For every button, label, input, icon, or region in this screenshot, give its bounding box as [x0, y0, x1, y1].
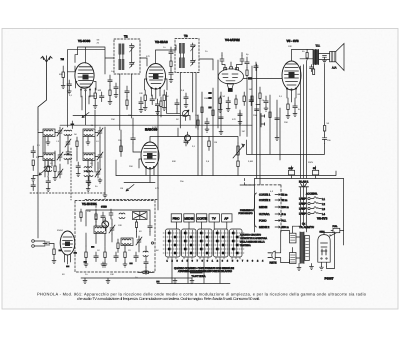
capacitor C33	[310, 65, 314, 72]
coil L4	[83, 153, 95, 161]
wire V2 plate to T2	[156, 45, 177, 63]
capacitor C15	[131, 134, 136, 143]
ground	[297, 264, 301, 271]
svg-text:T2: T2	[124, 35, 128, 39]
capacitor C68 dark	[156, 281, 159, 283]
ground	[53, 176, 57, 181]
ground	[87, 173, 91, 186]
resistor R46	[117, 239, 119, 253]
capacitor C41	[31, 182, 35, 191]
capacitor C55	[125, 86, 129, 97]
svg-text:V1-ECH81: V1-ECH81	[82, 202, 97, 206]
ground	[264, 107, 268, 112]
lamp row L3	[299, 207, 325, 211]
wire V5 plate to T5	[292, 49, 314, 61]
coil L2	[83, 129, 95, 137]
coil L10	[64, 154, 72, 159]
wire transformer top	[293, 187, 307, 258]
volume pot P1	[233, 143, 245, 158]
capacitor C54	[114, 83, 118, 93]
resistor R52	[126, 97, 128, 110]
FM unit box	[133, 212, 148, 220]
connector J1	[261, 114, 265, 128]
speaker AP	[319, 44, 344, 71]
label matrix legend	[174, 267, 234, 278]
capacitor C7	[322, 135, 327, 144]
capacitor C37	[264, 96, 268, 107]
oscillator dashed box	[75, 201, 155, 273]
potentiometer P2	[183, 110, 190, 121]
resistor R35	[269, 112, 271, 118]
svg-text:RETE: RETE	[270, 262, 277, 265]
capacitor C46	[148, 222, 152, 232]
svg-text:LAMP: LAMP	[299, 203, 306, 206]
trimmer C9	[97, 127, 103, 137]
osc coil L7	[94, 226, 106, 234]
capacitor C5	[249, 96, 254, 106]
wire heater bus A	[73, 116, 190, 121]
capacitor C43	[76, 162, 80, 172]
wire af bus 2	[116, 160, 155, 183]
capacitor C13	[46, 177, 51, 187]
capacitor C51	[169, 47, 173, 58]
svg-text:PREMENDO: PREMENDO	[240, 209, 253, 212]
svg-text:FONO: FONO	[259, 220, 267, 223]
switch matrix	[166, 229, 243, 257]
wire osc dashed gang	[95, 206, 97, 226]
legend text block	[240, 209, 268, 247]
capacitor C30	[220, 56, 224, 65]
long vertical drops top to bottom	[95, 60, 280, 210]
wire B+ verticals to power unit	[301, 61, 307, 179]
capacitor C58	[245, 57, 249, 68]
coil L3	[43, 153, 55, 161]
svg-text:V1-6C86: V1-6C86	[78, 39, 90, 43]
capacitor C62	[175, 99, 179, 109]
mains plug	[268, 251, 277, 265]
ground	[184, 103, 188, 108]
svg-text:50K: 50K	[172, 160, 176, 163]
ground	[86, 187, 90, 192]
svg-text:AF: AF	[224, 217, 228, 221]
trimmer C12	[57, 168, 63, 178]
value labels scatter	[36, 39, 331, 280]
ground	[173, 278, 177, 284]
wire top bus to T1	[68, 47, 115, 74]
IF transformer T1 dashed box	[114, 39, 140, 74]
dashed AVC bus	[85, 199, 158, 201]
svg-text:FONOGRAFO: FONOGRAFO	[239, 212, 253, 215]
switch matrix contacts	[168, 232, 239, 255]
capacitor C36	[275, 118, 279, 120]
ground	[205, 128, 209, 133]
ground	[46, 187, 50, 192]
resistor R13	[85, 246, 87, 263]
coil L5	[84, 171, 93, 177]
resistor R1	[62, 66, 64, 83]
svg-text:250K: 250K	[204, 97, 210, 100]
ground	[103, 193, 107, 198]
wire long AF bus	[116, 171, 336, 176]
trimmer C44	[95, 168, 101, 178]
resistor R53	[246, 68, 248, 137]
coil L9	[64, 130, 72, 135]
output transformer T5	[313, 49, 319, 64]
ground	[238, 120, 242, 125]
potentiometer P3	[185, 132, 191, 144]
resistor R17	[138, 271, 154, 273]
resistor R11	[237, 158, 239, 176]
capacitor C1	[67, 80, 72, 90]
capacitor C57	[155, 99, 159, 110]
capacitor C66 dark	[248, 77, 252, 79]
resistor R44	[95, 210, 97, 221]
resistor R5	[219, 96, 221, 108]
wire T2 to V4	[199, 59, 213, 70]
wire screen bus	[247, 64, 325, 154]
svg-text:EM34: EM34	[57, 229, 63, 232]
resistor R55	[235, 95, 237, 109]
capacitor C21	[114, 252, 119, 262]
wire vertical drop x221	[220, 92, 222, 130]
legend row CORTE2	[259, 199, 287, 202]
ground	[108, 100, 112, 105]
band table header AF	[222, 214, 232, 222]
wire V3 grid left	[133, 143, 141, 152]
svg-text:FINO: FINO	[173, 217, 181, 221]
wire dashed gang line	[70, 148, 72, 200]
resistor R9	[47, 162, 49, 176]
svg-text:3 m: 3 m	[282, 213, 286, 216]
tube V5	[282, 61, 301, 102]
resistor R14	[104, 247, 106, 263]
wire heater bus B	[60, 124, 252, 126]
capacitor C3	[150, 95, 155, 105]
label matrix numbers	[167, 260, 265, 263]
svg-text:T3: T3	[184, 34, 188, 38]
lamp row L2	[299, 202, 325, 206]
ground	[101, 262, 105, 267]
wire plug to transformer	[275, 231, 289, 263]
power section box	[255, 178, 344, 245]
wire V4 to V5 coupling	[244, 78, 283, 80]
resistor R51	[109, 86, 111, 100]
svg-text:T.U.: T.U.	[316, 45, 321, 48]
svg-text:10K: 10K	[110, 273, 114, 276]
wire pot to bus	[186, 137, 238, 144]
svg-text:25K: 25K	[111, 118, 115, 121]
ground	[83, 278, 87, 284]
resistor R30	[306, 49, 308, 60]
resistor R32	[201, 107, 203, 113]
ground	[218, 108, 222, 113]
wire coil cluster vertical links	[45, 135, 98, 177]
rectifier tube V6	[318, 235, 330, 267]
capacitor C60 dark	[59, 246, 95, 267]
wire T1 bottom drop	[120, 74, 132, 130]
coil L11	[143, 251, 148, 256]
svg-text:1M: 1M	[242, 130, 245, 133]
ground	[190, 278, 194, 284]
wire T2 drops	[180, 73, 196, 128]
wire vertical drop x257	[256, 64, 258, 178]
tube V4	[218, 67, 243, 92]
trimmer C10	[57, 151, 63, 161]
wire osc extra	[112, 210, 150, 270]
capacitor C63	[184, 93, 188, 103]
svg-text:1M: 1M	[249, 88, 252, 91]
wire vertical drop x270	[269, 95, 271, 154]
ground	[114, 93, 118, 98]
dashed AVC bus 2	[245, 178, 282, 232]
svg-text:CORTE 1: CORTE 1	[259, 194, 271, 197]
svg-text:A TASTIERA COMMUTATA NELLE POS: A TASTIERA COMMUTATA NELLE POSIZIONI DI …	[178, 270, 232, 273]
svg-text:ACCENS.: ACCENS.	[306, 193, 318, 196]
resistor R12	[208, 137, 210, 151]
legend row MEDIE	[259, 206, 289, 209]
wire antenna down-lead	[37, 130, 39, 238]
svg-text:ULTRAC.: ULTRAC.	[259, 213, 270, 216]
ground	[275, 136, 279, 141]
svg-text:1M: 1M	[214, 141, 217, 144]
capacitor C20	[94, 252, 99, 262]
trimmer C18	[109, 224, 115, 234]
osc coil L8	[121, 238, 133, 246]
trimmer C11	[97, 151, 103, 161]
wire v2 bottom net	[161, 92, 180, 117]
wire vertical drop x252	[251, 66, 253, 154]
resistor R6	[243, 92, 245, 106]
tube V1	[75, 63, 96, 99]
capacitor C32	[323, 56, 327, 63]
potentiometer P4	[102, 218, 109, 231]
svg-text:47K: 47K	[155, 187, 159, 190]
ground	[31, 176, 35, 182]
ground	[286, 114, 290, 119]
svg-text:V6-5Y3: V6-5Y3	[317, 217, 328, 221]
resistor R42	[54, 162, 56, 176]
svg-text:LAMP: LAMP	[299, 198, 306, 201]
phono input terminals	[32, 240, 45, 248]
wire V3 plate	[150, 137, 186, 143]
svg-text:P.U.: P.U.	[282, 220, 287, 223]
legend brace	[253, 193, 257, 227]
wire vertical drop x202	[201, 92, 203, 176]
svg-text:0,5M: 0,5M	[248, 160, 253, 163]
resistor R54	[160, 97, 162, 111]
trimmer C42	[65, 138, 71, 148]
ground	[52, 259, 56, 264]
capacitor C16	[184, 137, 189, 147]
svg-text:BLAN 1: BLAN 1	[299, 181, 309, 184]
capacitor C2	[100, 92, 105, 102]
svg-text:32 m: 32 m	[282, 199, 288, 202]
ballast BLAN	[289, 170, 319, 187]
svg-text:47K: 47K	[232, 118, 236, 121]
wire V4 top	[222, 53, 242, 70]
capacitor C40	[31, 146, 35, 158]
wire T1 to V2	[140, 58, 147, 66]
capacitor C53	[108, 75, 112, 86]
wire bottom bus 2	[157, 259, 230, 284]
svg-text:1M: 1M	[120, 187, 123, 190]
ground	[98, 178, 102, 183]
svg-text:A.P.: A.P.	[332, 67, 337, 70]
legend row ULTRAC	[259, 213, 286, 216]
resistor R37	[197, 115, 199, 130]
svg-text:V5 - 6V6: V5 - 6V6	[287, 39, 299, 43]
capacitor C38	[205, 118, 209, 128]
ground	[76, 172, 80, 177]
wire V6 output	[324, 231, 344, 269]
resistor R40	[32, 160, 34, 171]
svg-text:MEDIE: MEDIE	[259, 206, 267, 209]
legend row CORTE	[259, 194, 287, 197]
tube V6 magic eye	[60, 231, 75, 264]
capacitor C59	[254, 62, 258, 71]
resistor R41	[76, 137, 78, 151]
svg-text:7M: 7M	[61, 58, 64, 61]
resistor R43	[135, 220, 137, 232]
resistor R10	[120, 140, 122, 157]
wire grid riser x67.5	[67, 50, 69, 127]
legend row MEDIE2	[259, 226, 289, 229]
resistor R50	[170, 58, 172, 71]
svg-text:LAMP: LAMP	[299, 208, 306, 211]
svg-text:LAMP: LAMP	[299, 213, 306, 216]
resistor R16	[53, 244, 55, 259]
ground	[144, 270, 148, 274]
capacitor C65 dark	[71, 121, 75, 129]
ground	[46, 140, 50, 145]
power transformer T6	[290, 232, 310, 264]
svg-text:DELLA SEZIONE DELLA: DELLA SEZIONE DELLA	[240, 241, 265, 244]
ground	[123, 262, 127, 267]
wire osc internal	[86, 210, 139, 252]
trimmer C8	[57, 127, 63, 137]
fuse box	[330, 228, 344, 236]
ground	[66, 150, 70, 155]
svg-text:V4-6AT6M: V4-6AT6M	[225, 38, 240, 42]
wire misc right	[240, 166, 316, 185]
IF transformer T2 dashed box	[175, 39, 199, 73]
capacitor C45	[144, 257, 148, 268]
antenna	[38, 56, 52, 130]
ground	[139, 108, 143, 113]
svg-text:MEDIE 2: MEDIE 2	[259, 226, 270, 229]
wire grid riser x77.5	[68, 47, 78, 72]
capacitor C23	[43, 242, 54, 246]
resistor R36	[256, 87, 261, 105]
wire vertical drop x213	[212, 88, 214, 176]
tube V3	[139, 142, 159, 178]
capacitor C6	[293, 104, 298, 112]
resistor R45	[80, 209, 82, 222]
band table header FINO	[171, 214, 181, 222]
resistor R34	[251, 96, 253, 102]
resistor R7	[287, 104, 289, 114]
wire V1 cathode	[82, 96, 95, 125]
ground	[106, 278, 110, 284]
resistor R2	[94, 88, 96, 104]
ground	[67, 89, 71, 94]
capacitor C56	[139, 97, 143, 108]
svg-text:200 m: 200 m	[282, 206, 289, 209]
ground	[156, 110, 160, 115]
svg-text:CORTE: CORTE	[197, 217, 207, 221]
svg-text:50K: 50K	[59, 73, 63, 76]
svg-text:6,3V: 6,3V	[289, 167, 294, 170]
coil L12	[44, 167, 52, 172]
coil L6	[119, 213, 125, 219]
ground	[162, 106, 166, 111]
resistor R31	[313, 65, 315, 75]
svg-text:20K: 20K	[87, 210, 91, 213]
svg-text:CORTE 2: CORTE 2	[259, 199, 271, 202]
band table header MEDIE	[184, 214, 194, 222]
ground	[103, 262, 107, 267]
ground	[320, 266, 324, 270]
wire cluster verticals	[43, 127, 105, 193]
ground	[93, 104, 97, 109]
svg-text:TV: TV	[212, 217, 216, 221]
svg-text:350V: 350V	[308, 161, 314, 164]
capacitor C47	[101, 212, 105, 222]
capacitor C34	[219, 117, 223, 119]
resistor R15	[124, 248, 126, 263]
bottom ground bus	[81, 277, 192, 279]
tube V2	[145, 64, 168, 99]
ground	[61, 83, 65, 89]
ground	[86, 140, 90, 145]
svg-text:TASTIERA: TASTIERA	[192, 275, 206, 278]
svg-text:che audio-TV a modulazione di: che audio-TV a modulazione di frequenza.…	[77, 296, 260, 301]
ground	[169, 78, 173, 83]
svg-text:MEDIE: MEDIE	[184, 217, 193, 221]
ground	[219, 130, 223, 135]
legend row FONO	[259, 220, 286, 223]
capacitor C61 dark	[208, 92, 211, 109]
wire dashed gang line 2	[30, 192, 105, 194]
ground	[143, 106, 147, 111]
svg-text:P6387: P6387	[325, 277, 334, 281]
lamp row L1	[299, 197, 325, 201]
switch arrow S3	[82, 113, 89, 118]
capacitor C4	[226, 97, 231, 107]
svg-text:2M: 2M	[128, 114, 131, 117]
wire coil cluster links	[38, 133, 100, 178]
wire header drops	[176, 222, 226, 229]
coil L13	[84, 167, 92, 172]
svg-text:FUS.: FUS.	[333, 225, 338, 228]
capacitor C52	[169, 71, 173, 79]
resistor R33	[212, 110, 214, 116]
switch matrix pins	[168, 257, 240, 259]
trimmer C19	[136, 236, 142, 246]
ground	[226, 107, 230, 112]
svg-text:I CONTATTI DI APERTURA: I CONTATTI DI APERTURA	[240, 237, 268, 240]
svg-text:35Z4: 35Z4	[320, 231, 326, 234]
svg-text:EABC: EABC	[152, 126, 158, 129]
band table header CORTE	[196, 214, 207, 222]
band table header TV	[209, 214, 219, 222]
ground	[293, 112, 297, 117]
capacitor C31	[240, 56, 244, 65]
ground	[310, 264, 314, 270]
wire V5 cathode parts	[288, 98, 295, 104]
svg-text:1 2 3 4 5 6 7 8 9 1 2 3 4 5 6: 1 2 3 4 5 6 7 8 9 1 2 3 4 5 6 7 8 9 2 4	[167, 260, 265, 263]
coil L1	[43, 129, 55, 137]
